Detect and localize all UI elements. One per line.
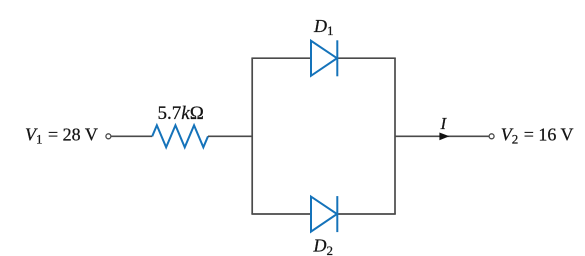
diode D2 — [311, 196, 337, 232]
svg-text:D1: D1 — [313, 16, 334, 38]
wire bottom branch left — [251, 213, 311, 215]
wire top branch left — [251, 57, 311, 59]
svg-text:V1 = 28 V: V1 = 28 V — [25, 124, 98, 146]
node V1 terminal — [106, 134, 111, 139]
wire resistor to bridge — [208, 135, 252, 137]
wire bottom branch right — [337, 213, 396, 215]
svg-text:5.7kΩ: 5.7kΩ — [158, 103, 204, 124]
current arrow I — [439, 133, 449, 141]
wire bridge right vertical — [394, 58, 396, 214]
wire bridge left vertical — [251, 58, 253, 214]
wire top branch right — [337, 57, 396, 59]
svg-text:V2 = 16 V: V2 = 16 V — [501, 124, 574, 146]
wire output — [395, 135, 490, 137]
node V2 terminal — [489, 134, 494, 139]
svg-text:D2: D2 — [313, 236, 334, 256]
wire input left — [111, 135, 152, 137]
resistor R1 5.7k zigzag — [152, 125, 208, 147]
svg-text:I: I — [440, 114, 448, 133]
diode D1 — [311, 40, 337, 76]
